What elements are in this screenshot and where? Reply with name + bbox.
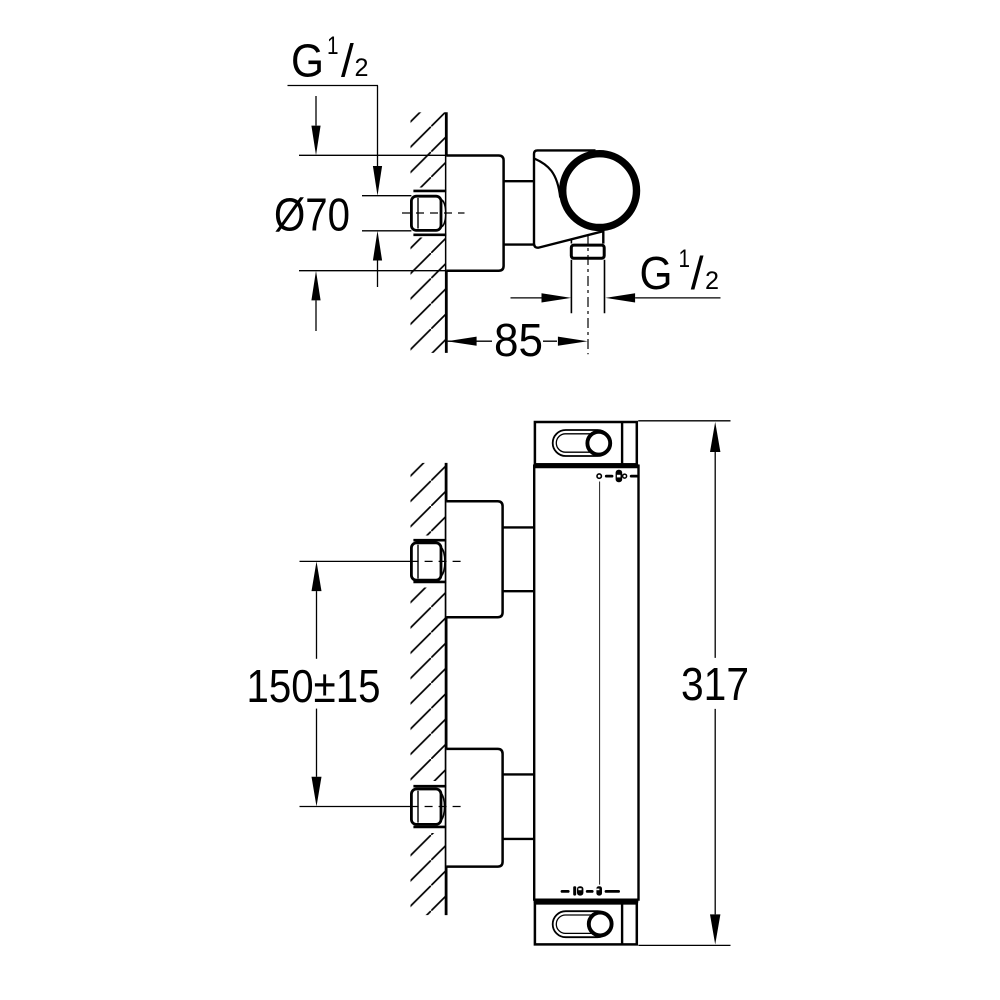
bottom markings: dash 1 (562, 890, 568, 893)
85 dimension line (448, 340, 557, 342)
bottom cap divider line (621, 903, 623, 945)
lower union nut (front view) (411, 789, 441, 824)
svg-text:G: G (291, 35, 324, 87)
317 extension line top (638, 420, 730, 422)
svg-text:85: 85 (494, 314, 543, 366)
bottom cap outlet circle (589, 913, 612, 936)
union nut shadow lines (top view) (413, 191, 446, 235)
extension line nut top (362, 195, 411, 197)
upper connector (503, 527, 535, 591)
wall line (top view) (445, 112, 448, 353)
lower nut facet line (417, 791, 419, 823)
svg-text:150±15: 150±15 (247, 660, 381, 712)
pipe centerline (587, 234, 589, 354)
upper nut centerline / 150 extension (300, 560, 411, 562)
hatch clearance around upper nut (405, 536, 445, 588)
bottom markings: dash 2 (587, 890, 592, 893)
top cap (shower arm connection) (535, 422, 637, 464)
wall line (bottom view) (445, 463, 448, 915)
arrow right to pipe centerline (558, 337, 588, 346)
O70 dimension lower leg (315, 300, 317, 331)
body centerline (bottom view) (599, 482, 601, 885)
extension line escutcheon bottom (299, 270, 445, 272)
arrow down to nut top (373, 166, 382, 196)
lower nut chamfer arc (441, 793, 445, 820)
bottom markings: dash 3 (606, 890, 619, 893)
valve body (side view) (534, 150, 603, 247)
upper boss escutcheon (front view) (446, 501, 502, 617)
connector neck between escutcheon and body (504, 181, 534, 244)
lower nut centerline / 150 extension (300, 806, 411, 808)
nut inner facet line (417, 198, 419, 229)
svg-text:/: / (691, 247, 704, 299)
top markings: dash 2 (631, 475, 637, 478)
bottom cap slot inner stadium (556, 915, 607, 933)
317 dimension line upper part (714, 452, 716, 658)
upper nut chamfer arc (441, 548, 445, 577)
svg-text:2: 2 (705, 267, 719, 295)
body inner fillet curve (535, 159, 561, 198)
top cap divider line (621, 422, 623, 464)
top junction thick line (534, 464, 639, 468)
svg-text:1: 1 (679, 245, 691, 273)
O70 dimension upper leg (315, 96, 317, 126)
escutcheon (wall flange, side view) (446, 156, 503, 271)
top markings: dash 1 (606, 475, 612, 478)
150 dimension line upper part (316, 591, 318, 659)
G1/2 dimension lower leg (377, 261, 379, 288)
arrow up to upper centerline (312, 561, 322, 591)
nut centerline (top view) (402, 212, 465, 214)
G1/2 dimension leg (from underline) (377, 86, 379, 167)
top markings: small circle (597, 474, 601, 478)
bottom cap slot outer stadium (553, 911, 611, 937)
bottom markings: glyph 2 (596, 886, 602, 895)
union nut (top view) (411, 196, 441, 230)
top markings: bold glyph (616, 470, 623, 482)
upper nut shadow lines (413, 540, 446, 582)
arrow up to nut bottom (373, 231, 382, 261)
thermostat knob circle (563, 154, 637, 228)
hatch clearance around union nut (405, 188, 445, 238)
pipe G1/2 dimension left piece (511, 297, 542, 299)
main body sides (front view) (534, 465, 638, 901)
arrow down to bottom extension (710, 914, 720, 944)
svg-text:Ø70: Ø70 (274, 188, 350, 240)
upper union nut (front view) (411, 543, 441, 580)
outlet fitting nut (571, 245, 604, 258)
arrow down to lower centerline (312, 777, 322, 807)
hatch clearance around lower nut (405, 781, 445, 833)
arrow right to pipe left edge (542, 293, 572, 302)
wall hatching (bottom view) (411, 463, 446, 915)
317 extension line bottom (638, 944, 730, 946)
top markings: small circle 2 (623, 474, 627, 478)
svg-text:317: 317 (681, 658, 749, 710)
arrow up to escutcheon bottom (311, 271, 320, 301)
svg-text:/: / (341, 35, 354, 87)
lower nut shadow lines (413, 786, 446, 827)
svg-text:1: 1 (327, 32, 339, 60)
150 dimension line lower part (316, 709, 318, 777)
svg-text:2: 2 (355, 54, 369, 82)
svg-text:G: G (640, 247, 673, 299)
arrow left to wall (447, 337, 477, 346)
top cap slot inner stadium (556, 434, 607, 452)
pipe left sliver above fitting (570, 239, 572, 244)
extension line escutcheon top (299, 154, 445, 156)
lower connector (503, 774, 535, 839)
top cap outlet circle (587, 432, 610, 455)
lower boss escutcheon (front view) (446, 749, 502, 867)
arrow left to pipe right edge (605, 293, 635, 302)
nut chamfer arc (441, 200, 446, 227)
G1/2 leader underline (top left) (288, 85, 379, 87)
outlet pipe (571, 260, 604, 313)
bottom cap (535, 903, 637, 944)
upper nut facet line (417, 545, 419, 579)
top cap slot outer stadium (553, 430, 611, 456)
bottom markings: glyph 18 (573, 886, 576, 895)
arrow up to top extension (710, 422, 720, 452)
G1/2 leader underline (right) (635, 297, 720, 299)
arrow down to escutcheon top (311, 126, 320, 156)
wall hatching (top view) (411, 112, 446, 353)
extension line nut bottom (362, 230, 411, 232)
317 dimension line lower part (714, 709, 716, 915)
bottom junction thick line (534, 899, 639, 903)
